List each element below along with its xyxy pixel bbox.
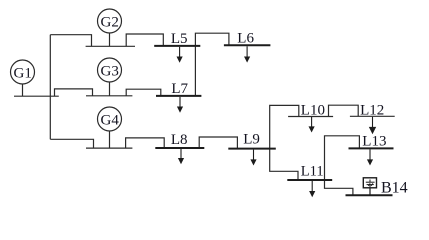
wire L11 to L13 [325,136,360,180]
svg-text:L6: L6 [237,31,254,47]
bus 9 (L9) [228,148,275,150]
wire G4 stem [109,131,111,148]
wire bus3 to L7 [126,89,161,96]
svg-text:L12: L12 [360,103,384,119]
bus 5 (L5) [154,45,200,47]
load arrow L5 [177,47,181,62]
bus 12 (L12) [350,115,395,117]
wire trunk vertical bus1 riser [49,35,51,140]
bus 2 (G2) [86,45,135,47]
shunt device B14 symbol [363,178,376,196]
bus 7 (L7) [156,95,201,97]
wire L8 to L9 [199,137,237,149]
wire L9 to L11 [270,149,298,180]
wire trunk to bus2 [50,35,91,47]
svg-text:G3: G3 [101,63,119,79]
bus 6 (L6) [224,44,271,46]
wire B14 symbol stem [369,188,371,196]
load arrow L13 [368,149,372,164]
bus 13 (L13) [349,147,394,149]
bus 10 (L10) [288,116,333,118]
svg-text:G4: G4 [101,112,120,128]
load arrow L6 [245,46,249,61]
load arrow L9 [251,150,255,165]
load arrow L8 [179,149,183,163]
bus 14 (B14) [346,194,393,196]
generator G4 [98,107,122,131]
load arrows [177,46,375,196]
wire trunk to bus4 [50,139,93,148]
svg-text:L11: L11 [301,163,324,179]
wire L5 to L6 [195,33,229,46]
wire bus2 to L5 [126,34,163,46]
svg-text:L9: L9 [243,132,260,148]
bus 4 (G4) [86,147,132,149]
svg-text:L5: L5 [171,31,188,47]
bus 8 (L8) [155,147,204,149]
svg-text:L10: L10 [301,102,325,118]
svg-text:G1: G1 [14,65,32,81]
svg-text:B14: B14 [381,179,408,196]
generator G1 [11,60,35,84]
wire G3 stem [109,82,111,96]
svg-text:L8: L8 [171,132,188,148]
bus 1 (G1) [14,95,59,97]
bus 11 (L11) [287,179,332,181]
load arrow L12 [370,117,376,133]
wire G1 stem [22,84,24,96]
wire L9 to L10 [270,105,299,148]
load arrow L7 [178,97,182,112]
wire bus4 to L8 [126,138,165,148]
svg-text:G2: G2 [101,14,119,30]
load arrow L10 [309,117,313,131]
bus 3 (G3) [86,95,132,97]
wire L10 to L12 [329,105,359,116]
wire bus1 to bus3 bracket [55,89,93,96]
generator G2 [98,9,122,33]
wire L11 to B14 [325,180,353,195]
wire G2 stem [109,33,111,47]
wire L5 to L7 [194,46,196,96]
load arrow L11 [310,181,314,196]
svg-text:L13: L13 [362,134,386,150]
generator G3 [98,58,122,82]
svg-text:L7: L7 [171,81,188,97]
